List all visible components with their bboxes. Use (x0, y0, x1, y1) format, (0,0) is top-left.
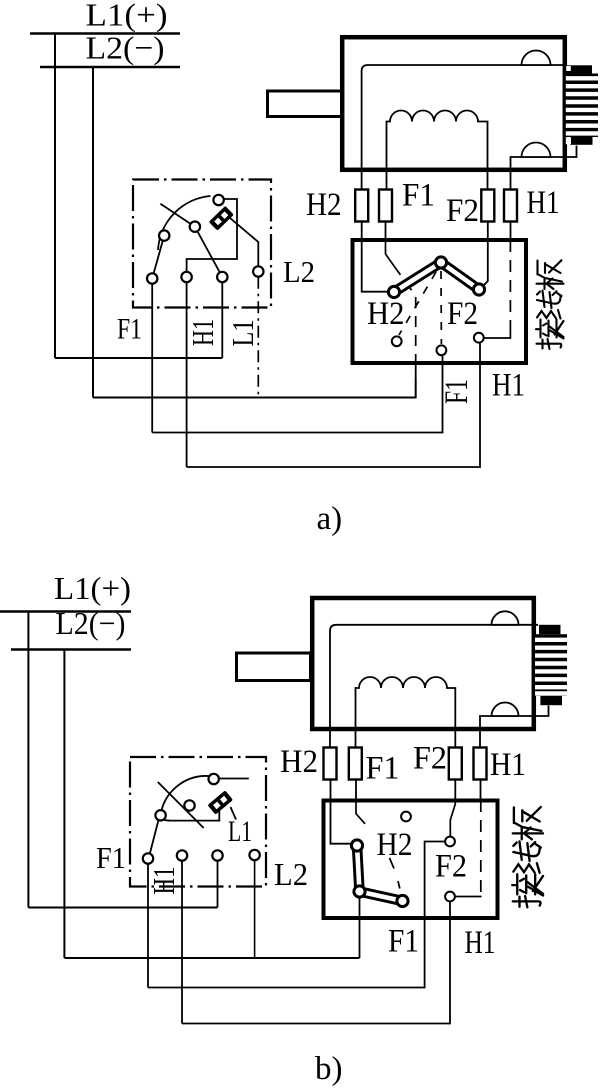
link end circle top (b) (351, 840, 362, 851)
wire L2 bus (b) (11, 648, 131, 651)
svg-text:F2: F2 (435, 849, 467, 885)
wire L1 bus (b) (0, 610, 131, 613)
motor M (figure a) body (342, 37, 565, 170)
label jiexianban (figure a, rotated) (536, 260, 564, 349)
label jiexianban (figure b, rotated) (512, 807, 543, 907)
wire F1 entry with break tick (386, 240, 395, 266)
brush bottom wire (H1 lead, b) (480, 706, 549, 748)
wire H1 lead to board (b) (480, 780, 482, 801)
wire H1 post to dashed drop (b) (455, 896, 482, 898)
svg-text:F2: F2 (447, 296, 478, 332)
wire F1 lead to board (b) (355, 780, 357, 801)
svg-text:F1: F1 (96, 840, 126, 875)
wire link bottom post down (b) (359, 897, 361, 958)
wire controller post1 to board F2 (b) (148, 920, 425, 988)
svg-text:F2: F2 (446, 193, 479, 229)
contact circle left (159, 230, 169, 240)
svg-text:H2: H2 (377, 827, 413, 863)
wire post1 down (b) (147, 864, 149, 988)
contact circle middle (b) (184, 800, 194, 810)
commutator body (b) (535, 625, 567, 705)
wire left contact path to staple (b) (163, 806, 219, 821)
wire H1 entry dashed (509, 240, 511, 332)
wire L2 to board horizontal (b) (64, 957, 359, 959)
brush bottom bump (b) (492, 703, 519, 717)
wire L1 to controller horizontal (b) (28, 907, 217, 909)
wire H2 entry inside board (b) (331, 800, 352, 844)
wire left contact to post 1 (152, 236, 164, 279)
dashed alternate link position (apex to left post) (399, 272, 436, 335)
terminal board (figure a) (353, 240, 527, 363)
wire L1 bus (30, 32, 180, 35)
svg-text:H1: H1 (492, 368, 525, 404)
svg-text:L1: L1 (225, 320, 260, 347)
motor shaft (b) (237, 653, 311, 681)
dashed alternate link position (apex to middle post) (440, 271, 442, 344)
post circle 1 (b) (143, 853, 153, 863)
wire post3 down (221, 282, 223, 358)
terminal post circle F1 (board a) (437, 345, 447, 355)
contact circle middle (190, 222, 200, 232)
wire H1 lead to board (510, 222, 512, 241)
wire controller H1 to board H1 (187, 342, 480, 467)
wire F2 entry (b) (450, 800, 455, 836)
contact circle left (b) (155, 810, 165, 820)
brush top bump (b) (492, 611, 519, 625)
wire H1 entry dashed (b) (480, 800, 482, 897)
wire left contact to post 1 (b) (150, 820, 159, 853)
svg-text:b): b) (315, 1051, 343, 1087)
svg-text:H1: H1 (185, 319, 220, 346)
svg-text:L1(+): L1(+) (86, 0, 168, 33)
wire F1 dashed run to H2 terminal (394, 266, 416, 362)
wiper line to post 3 (195, 227, 222, 277)
brush bottom (bump) (522, 143, 551, 158)
terminal block F1 (motor b) (349, 748, 362, 780)
motor field winding outline (H2 lead, b) (330, 625, 538, 747)
wiper line upper (160, 204, 195, 227)
wire staple to post 4 (230, 218, 258, 272)
wire F2 lead to board (b) (454, 780, 456, 801)
terminal post circle H1 (board b) (445, 892, 455, 902)
link end circle right (473, 284, 484, 295)
link mid circle (b) (354, 886, 365, 897)
svg-text:L2(−): L2(−) (86, 30, 165, 66)
terminal board (figure b) (324, 801, 498, 919)
terminal post circle H1 (board a) (474, 333, 484, 343)
connection link bar angled (b) (360, 892, 403, 902)
brush bottom wire (H1 lead) (511, 146, 577, 190)
wire post3 down (b) (217, 861, 219, 908)
post circle 2 (b) (177, 850, 187, 860)
wire from L1 bus down (54, 34, 56, 359)
connection link bar right (F2 strap) (441, 263, 479, 290)
post circle 4 (L2) (253, 266, 263, 276)
terminal block H2 (motor b) (324, 748, 337, 780)
svg-text:L2: L2 (283, 254, 315, 289)
wire F2 post to left and down (b) (425, 842, 445, 921)
wire from L1 bus down (b) (27, 612, 29, 908)
wire F1 lead to board (385, 222, 387, 241)
armature coil inductor (b) (356, 677, 456, 747)
moving contact staple symbol (b) (208, 790, 234, 814)
wire L1 to controller (horizontal) (55, 357, 222, 359)
wire top contact to right (b) (219, 778, 249, 780)
svg-text:F1: F1 (117, 313, 142, 346)
motor shaft (268, 91, 342, 117)
controller contact arc (b) (161, 776, 209, 816)
terminal block F2 (motor a) (481, 190, 494, 222)
wire L2 run to board H2 (horizontal) (93, 397, 416, 399)
wire board H2 terminal drop (415, 363, 417, 398)
svg-text:H2: H2 (280, 744, 318, 780)
wire post2 down (b) (181, 861, 183, 1024)
contact circle top (b) (209, 774, 219, 784)
post circle 2 (H1) (181, 272, 191, 282)
svg-text:a): a) (317, 501, 343, 537)
post circle 3 (b) (212, 850, 222, 860)
wire post2 down (186, 282, 188, 467)
wire F2 lead to board (487, 222, 489, 241)
wire staple tail (b) (231, 807, 237, 820)
post circle 3 (L1) (217, 272, 227, 282)
wire post4 down (chain line) (257, 277, 259, 398)
wire controller post2 to board H1 (b) (182, 902, 450, 1024)
wire F2 entry (483, 240, 488, 286)
svg-text:H1: H1 (490, 747, 526, 783)
wiper line (b) (158, 782, 204, 828)
svg-text:F1: F1 (402, 178, 435, 214)
link apex circle (435, 257, 446, 268)
svg-text:L1: L1 (228, 815, 252, 848)
wire post4 down (b) (254, 860, 256, 958)
wire F1 dashed alternate link (b) (390, 858, 400, 889)
link end circle left (388, 286, 399, 297)
commutator body (566, 65, 598, 145)
wire L2 bus (40, 66, 180, 69)
svg-text:L1(+): L1(+) (54, 570, 131, 606)
terminal block H2 (motor a) (355, 190, 368, 222)
wire H2 lead to board (b) (330, 780, 332, 801)
motor field winding outline (H2 lead) (362, 65, 566, 190)
svg-text:H1: H1 (527, 185, 560, 221)
svg-text:F2: F2 (413, 741, 447, 777)
terminal block H1 (motor a) (504, 190, 517, 222)
svg-text:L2(−): L2(−) (56, 605, 126, 641)
controller S (figure b) chain-line box (130, 757, 266, 887)
terminal post circle (unused, board a) (392, 336, 402, 346)
svg-text:L2: L2 (274, 856, 308, 892)
terminal post circle F2 (board b) (445, 837, 455, 847)
brush top (bump) (522, 51, 551, 66)
wire F1 entry with break tick (b) (356, 800, 365, 824)
terminal block H1 (motor b) (474, 748, 487, 780)
terminal post circle top (unused, board b) (401, 812, 411, 822)
svg-text:H2: H2 (367, 296, 405, 332)
svg-text:F1: F1 (439, 379, 475, 404)
wire controller F1 to board F1 (152, 354, 442, 433)
controller S (figure a) chain-line box (133, 180, 271, 308)
svg-text:F1: F1 (366, 751, 400, 787)
connection link bar left (H2 strap) (394, 263, 441, 293)
moving contact staple symbol (209, 206, 234, 231)
link end circle right (b) (397, 895, 408, 906)
svg-text:H1: H1 (465, 925, 496, 961)
svg-text:H2: H2 (306, 187, 342, 223)
wire L-path post2 to top contact (187, 199, 237, 277)
wire H2 entry inside board (362, 240, 389, 292)
terminal block F1 (motor a) (379, 190, 392, 222)
svg-text:F1: F1 (388, 924, 419, 960)
terminal block F2 (motor b) (449, 748, 462, 780)
wire from L2 bus down (b) (63, 650, 65, 959)
svg-text:H1: H1 (146, 867, 181, 895)
post circle 1 (F1) (147, 273, 157, 283)
motor M (figure b) body (312, 598, 534, 729)
connection link bar vertical (b) (357, 846, 360, 892)
armature coil inductor (387, 111, 488, 190)
wire post1 down (151, 284, 153, 433)
wire H2 lead to board (361, 222, 363, 241)
contact circle top (213, 195, 223, 205)
post circle 4 (b) (249, 850, 259, 860)
wire from L2 bus down (92, 67, 94, 398)
controller contact arc (158, 196, 211, 250)
